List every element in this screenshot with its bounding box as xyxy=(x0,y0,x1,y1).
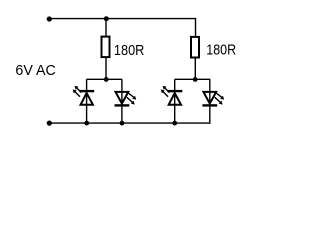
node junction D1 bottom xyxy=(84,121,89,126)
wire LED pair 2 top bar xyxy=(175,78,211,80)
wire LED D2 column xyxy=(121,79,123,123)
node junction J2 xyxy=(193,77,198,82)
LED D3 (anode down, cathode up) xyxy=(161,86,183,105)
resistor R2 xyxy=(191,37,199,58)
wire top rail to R1 xyxy=(105,19,107,37)
resistor R1 xyxy=(102,37,110,58)
LED D4 (anode up, cathode down) xyxy=(202,92,224,106)
wire LED D4 column xyxy=(209,79,211,124)
node junction D3 bottom xyxy=(172,121,177,126)
wire top rail corner to R2 xyxy=(195,18,197,37)
wire bottom rail xyxy=(49,122,210,124)
node terminal bottom-left xyxy=(47,121,52,126)
svg-text:180R: 180R xyxy=(114,43,144,59)
wire R2 to junction J2 xyxy=(194,58,196,79)
node junction D2 bottom xyxy=(120,121,125,126)
wire R1 to junction J1 xyxy=(105,58,107,80)
LED D1 (anode down, cathode up) xyxy=(73,86,95,105)
LED D2 (anode up, cathode down) xyxy=(115,92,137,106)
wire LED pair 1 top bar xyxy=(87,78,123,80)
node terminal top-left xyxy=(47,16,52,21)
node junction J1 xyxy=(104,77,109,82)
node junction top (left branch tap) xyxy=(104,16,109,21)
wire LED D3 column xyxy=(174,79,176,123)
svg-text:180R: 180R xyxy=(206,43,236,59)
svg-text:6V AC: 6V AC xyxy=(15,63,56,79)
wire top rail xyxy=(49,18,196,20)
wire LED D1 column xyxy=(86,79,88,123)
